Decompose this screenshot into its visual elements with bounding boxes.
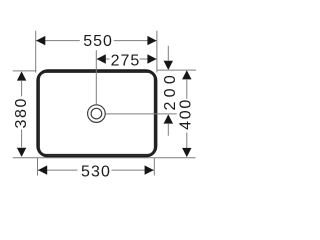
- wire: top edge extension line right segment: [157, 69, 196, 71]
- wire: bottom edge extension line (full, under basin): [13, 157, 196, 159]
- arrow: 550 right arrowhead: [147, 36, 156, 45]
- arrow: 200 bottom arrowhead (pointing up): [164, 114, 173, 123]
- wire: 380 dimension line upper tail: [21, 81, 23, 96]
- arrow: 380 top arrowhead: [17, 71, 26, 80]
- wire: horizontal drain centerline: [106, 113, 177, 115]
- arrow: 550 left arrowhead: [36, 36, 45, 45]
- arrow: 400 top arrowhead (pointing up): [182, 70, 191, 79]
- svg-text:275: 275: [111, 52, 141, 69]
- wire: vertical drain centerline: [95, 50, 97, 104]
- drain outer circle: [88, 105, 106, 123]
- arrow: 275 left arrowhead: [97, 54, 106, 63]
- svg-text:530: 530: [81, 163, 111, 180]
- washbasin inner bowl rim outline: [39, 72, 155, 155]
- wire: 380 dimension line lower tail: [21, 130, 23, 148]
- arrow: 530 right arrowhead: [145, 165, 154, 174]
- svg-text:400: 400: [178, 98, 195, 130]
- arrow: 200 top arrowhead (pointing down): [164, 61, 173, 70]
- drain inner circle: [91, 108, 102, 119]
- svg-text:550: 550: [83, 33, 113, 50]
- arrow: 400 bottom arrowhead (pointing down): [182, 148, 191, 157]
- wire: 200 dimension upper tail: [167, 46, 169, 61]
- arrow: 530 left arrowhead: [38, 165, 47, 174]
- wire: 200 dimension lower tail: [167, 124, 169, 136]
- arrow: 380 bottom arrowhead: [17, 148, 26, 157]
- wire: 530 dimension line: [38, 169, 154, 171]
- wire: 550 left extension line: [35, 31, 37, 73]
- wire: 530 right extension line: [153, 158, 155, 176]
- wire: 530 left extension line: [37, 158, 39, 176]
- wire: top edge extension line left segment: [13, 70, 36, 72]
- washbasin outer ceramic outline: [37, 70, 156, 156]
- wire: 400 dimension lower tail: [186, 133, 188, 148]
- wire: 400 dimension upper tail: [186, 80, 188, 99]
- svg-text:380: 380: [13, 97, 30, 129]
- wire: 550 dimension line: [36, 40, 157, 42]
- wire: 275 dimension line: [97, 58, 157, 60]
- svg-text:200: 200: [162, 71, 179, 111]
- wire: 550/275 right extension line: [156, 31, 158, 73]
- arrow: 275 right arrowhead: [147, 54, 156, 63]
